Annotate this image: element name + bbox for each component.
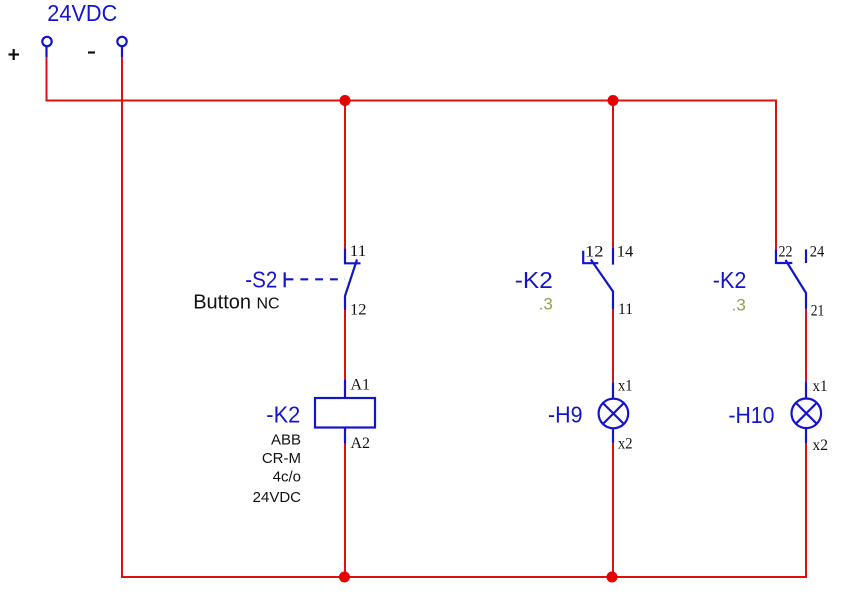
relay contact K2 changeover (right) (776, 249, 806, 309)
junction bottom-left (339, 572, 350, 583)
svg-text:12: 12 (585, 244, 604, 261)
svg-text:Button: Button (193, 292, 251, 314)
svg-text:x2: x2 (618, 436, 633, 453)
svg-text:-H9: -H9 (548, 402, 583, 428)
label + (9, 49, 20, 60)
svg-text:CR-M: CR-M (262, 450, 301, 467)
junction top-left (340, 95, 351, 106)
wire: minus drop, bottom rail, right riser (122, 57, 806, 577)
wire: branch2 top (rail to K2 contact) (612, 101, 614, 248)
wire: plus drop, top rail, right drop (47, 57, 777, 249)
svg-text:24VDC: 24VDC (47, 0, 117, 26)
pushbutton S2 NC contact (285, 249, 361, 311)
svg-text:NC: NC (257, 296, 280, 313)
junction top-right (608, 95, 619, 106)
label - (88, 51, 95, 53)
svg-text:12: 12 (350, 302, 367, 319)
svg-text:x1: x1 (618, 378, 633, 395)
terminal - (negative) (117, 37, 126, 57)
svg-text:-K2: -K2 (515, 267, 553, 293)
svg-text:21: 21 (811, 303, 825, 320)
svg-text:-K2: -K2 (713, 267, 747, 293)
wire: branch2 middle (contact to H9) (612, 309, 614, 382)
wire: branch1 middle (S2 to K2 coil) (344, 310, 346, 379)
wire: branch2 bottom (H9 to rail) (612, 443, 614, 577)
svg-text:11: 11 (618, 301, 633, 318)
svg-text:-H10: -H10 (728, 402, 774, 428)
svg-text:x1: x1 (813, 378, 828, 395)
svg-text:.3: .3 (732, 295, 746, 314)
svg-text:-K2: -K2 (266, 402, 300, 428)
svg-text:4c/o: 4c/o (273, 469, 301, 486)
svg-text:ABB: ABB (271, 432, 301, 449)
junction bottom-right (607, 572, 618, 583)
wire: branch1 top (rail to S2) (344, 101, 346, 249)
wire: branch3 middle (right contact to H10) (805, 309, 807, 382)
relay coil K2 (315, 379, 375, 443)
terminal + (positive) (42, 37, 51, 57)
lamp H10 (792, 382, 822, 443)
svg-text:14: 14 (617, 244, 634, 261)
svg-text:22: 22 (779, 244, 793, 261)
svg-text:x2: x2 (813, 437, 829, 454)
svg-text:.3: .3 (539, 295, 553, 314)
wire: branch1 bottom (K2 coil to rail) (344, 444, 346, 578)
svg-text:24: 24 (810, 244, 825, 261)
lamp H9 (599, 382, 629, 443)
svg-text:-S2: -S2 (245, 266, 277, 292)
svg-text:11: 11 (350, 243, 367, 260)
relay contact K2 changeover (middle) (583, 248, 613, 310)
svg-text:A1: A1 (351, 377, 371, 394)
svg-text:A2: A2 (351, 435, 371, 452)
svg-text:24VDC: 24VDC (253, 489, 302, 506)
